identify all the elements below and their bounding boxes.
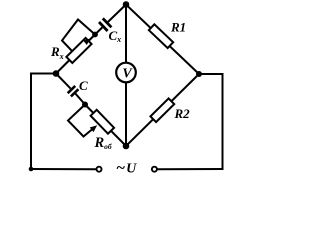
wire J2 to bottom node <box>85 105 126 147</box>
wire voltmeter top <box>125 5 127 64</box>
capacitor C plate 2 <box>71 89 79 96</box>
resistor Rob slider loop <box>68 105 94 137</box>
wire left rail down <box>30 73 32 170</box>
wire bottom left <box>30 168 96 170</box>
resistor Rx slider loop <box>62 20 95 52</box>
wire voltmeter bottom <box>125 82 127 146</box>
svg-text:C: C <box>79 78 88 93</box>
capacitor Cx plate 2 <box>103 18 112 27</box>
voltmeter V circle <box>116 63 136 83</box>
terminal left <box>97 167 102 172</box>
wire right rail down <box>222 73 224 169</box>
wire J1 to Cx <box>95 27 102 34</box>
resistor Rx body <box>66 38 91 63</box>
node left <box>53 70 60 77</box>
resistor R1 body <box>149 24 173 48</box>
svg-text:R2: R2 <box>174 106 191 121</box>
terminal right <box>152 167 157 172</box>
wire L to C <box>56 74 71 89</box>
wire bottom-right arm B to R <box>126 74 199 146</box>
wire Cx to top node <box>108 5 126 22</box>
node right <box>196 71 202 77</box>
resistor R2 body <box>150 98 174 122</box>
resistor Rob slider arrow <box>90 125 98 132</box>
resistor Rx slider arrow <box>83 38 90 45</box>
capacitor Cx plate 1 <box>99 22 108 31</box>
wire top-right arm T to R <box>126 5 199 75</box>
junction J1 <box>92 32 98 38</box>
wire left-top arm L to J1 <box>56 35 95 74</box>
node bottom <box>123 143 130 150</box>
svg-text:R1: R1 <box>170 20 186 35</box>
junction bottom-left corner <box>29 167 34 172</box>
wire R to right rail <box>199 73 223 75</box>
capacitor C plate 1 <box>68 86 76 93</box>
node top <box>123 1 130 8</box>
junction J2 <box>82 102 88 108</box>
wire L to left rail <box>31 73 56 75</box>
wire C to J2 <box>76 94 86 105</box>
wire bottom right <box>157 168 224 170</box>
svg-text:~U: ~U <box>116 160 137 177</box>
resistor Rob body <box>91 110 114 134</box>
